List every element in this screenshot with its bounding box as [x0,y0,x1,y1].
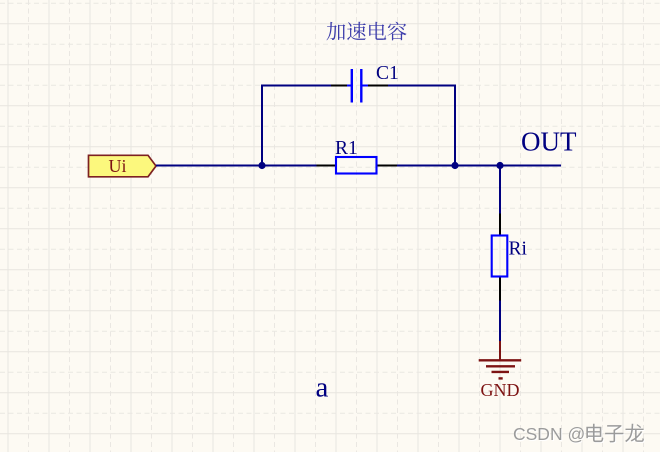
node C junction (OUT node) [496,162,503,169]
svg-text:GND: GND [481,380,520,400]
svg-text:Ri: Ri [509,239,528,260]
net label OUT [521,127,577,157]
svg-text:R1: R1 [335,138,358,159]
resistor Ri [492,214,528,301]
wire: R1 to node B [397,165,455,167]
watermark CSDN @电子龙 [513,424,645,444]
wire: node A up and across to C1 [262,86,331,166]
resistor R1 [317,138,398,174]
node B junction [451,162,458,169]
svg-text:OUT: OUT [521,127,577,157]
wire: node C down to Ri [499,166,501,214]
svg-text:C1: C1 [376,63,399,84]
wire: node B to node C [455,165,500,167]
port Ui [89,155,157,177]
svg-text:a: a [316,372,329,404]
node A junction [258,162,265,169]
ground GND [479,341,522,400]
svg-text:Ui: Ui [109,156,127,176]
wire: Ri to ground [499,301,501,342]
subfigure label a [316,372,329,404]
wire: port Ui to node A [156,165,262,167]
title text 加速电容 [327,22,407,41]
capacitor C1 [331,63,399,102]
wire: node A to R1 [262,165,317,167]
wire: node C to OUT end [500,165,561,167]
wire: C1 across and down to node B [388,86,455,166]
svg-text:CSDN @: CSDN @ [513,424,585,444]
